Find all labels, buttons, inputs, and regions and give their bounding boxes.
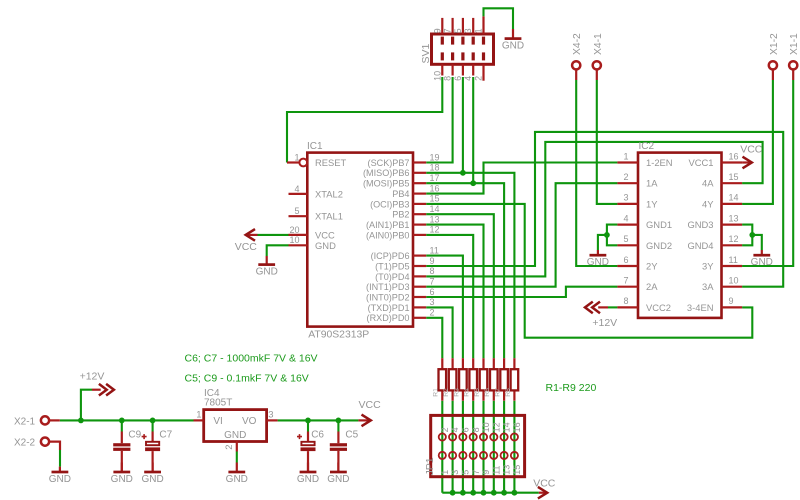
junction bus col 7 <box>501 490 507 496</box>
svg-text:16: 16 <box>729 151 739 161</box>
junction bus col 4 <box>470 490 476 496</box>
terminal X4-2 <box>572 33 583 80</box>
svg-text:6: 6 <box>461 427 471 432</box>
supply VCC at IC2 VCC1 <box>742 161 750 163</box>
svg-text:GND: GND <box>111 474 133 485</box>
svg-text:(AIN1)PB1: (AIN1)PB1 <box>366 220 409 230</box>
svg-text:7805T: 7805T <box>204 398 232 409</box>
svg-text:(INT1)PD3: (INT1)PD3 <box>366 282 409 292</box>
wire IC2 2Y to X4-2 <box>576 80 617 266</box>
junction IC2 GND1/2 <box>604 232 610 238</box>
ground at X2-2 <box>59 467 61 472</box>
svg-text:4Y: 4Y <box>702 198 714 209</box>
svg-text:VCC: VCC <box>533 477 556 489</box>
svg-text:1: 1 <box>294 152 299 162</box>
wire X2-2 to ground <box>59 450 61 467</box>
svg-text:PB2: PB2 <box>392 210 409 220</box>
wire SV1 pin1 to GND <box>484 8 514 29</box>
svg-text:10: 10 <box>729 276 739 286</box>
svg-text:3A: 3A <box>702 281 714 292</box>
svg-text:1A: 1A <box>646 178 658 189</box>
junction +12V tap <box>78 418 84 424</box>
svg-text:13: 13 <box>502 465 512 475</box>
svg-text:R4: R4 <box>464 388 471 397</box>
svg-text:11: 11 <box>430 245 439 255</box>
wire IC2 right GND branch <box>752 235 762 250</box>
wire IC2 3Y to X1-1 <box>742 80 793 266</box>
svg-text:R3: R3 <box>453 388 460 397</box>
svg-text:14: 14 <box>430 204 440 214</box>
ground at SV1 <box>512 29 514 39</box>
svg-text:3: 3 <box>623 193 628 203</box>
wire SV1 pin6 to MISO line <box>462 77 464 173</box>
svg-text:VCC: VCC <box>235 241 258 253</box>
resistor R2 <box>443 358 456 401</box>
svg-text:GND1: GND1 <box>646 219 672 230</box>
svg-text:4: 4 <box>463 76 473 81</box>
wire IC2 4Y to X1-2 <box>742 80 773 204</box>
svg-text:2: 2 <box>224 444 235 449</box>
svg-text:C6; C7 - 1000mkF 7V & 16V: C6; C7 - 1000mkF 7V & 16V <box>185 352 318 364</box>
svg-text:3: 3 <box>268 410 273 421</box>
svg-text:15: 15 <box>430 194 440 204</box>
wire resistor outputs through JP1 to VCC bus <box>441 401 443 493</box>
svg-text:7: 7 <box>443 28 453 33</box>
svg-text:GND2: GND2 <box>646 240 672 251</box>
svg-text:9: 9 <box>729 296 734 306</box>
svg-text:10: 10 <box>432 71 442 81</box>
svg-text:4: 4 <box>294 184 299 194</box>
svg-text:18: 18 <box>430 163 440 173</box>
wire PD3 INT1 to IC2 1A <box>426 183 617 287</box>
connector SV1 ISP header <box>420 16 494 81</box>
svg-text:13: 13 <box>430 214 440 224</box>
svg-text:R2: R2 <box>443 388 450 397</box>
junction bus col 3 <box>460 490 466 496</box>
wire SV1 pin4 to MOSI line <box>472 77 474 183</box>
junction MOSI/SV1-4 <box>470 180 476 186</box>
wire PB4 to IC2 1-2EN <box>426 163 617 194</box>
svg-text:4A: 4A <box>702 178 714 189</box>
svg-text:2Y: 2Y <box>646 261 658 272</box>
svg-text:IC1: IC1 <box>307 141 323 152</box>
wire C5 drop <box>337 420 339 431</box>
svg-text:VCC2: VCC2 <box>646 302 671 313</box>
svg-text:7: 7 <box>623 276 628 286</box>
svg-text:6: 6 <box>430 287 435 297</box>
svg-text:7: 7 <box>471 470 481 475</box>
svg-text:3: 3 <box>463 28 473 33</box>
wire PB2 to resistor R6 column <box>426 214 494 358</box>
svg-text:R5: R5 <box>474 388 481 397</box>
svg-text:19: 19 <box>430 152 440 162</box>
ground at IC2 left <box>597 250 599 255</box>
svg-text:4: 4 <box>450 427 460 432</box>
svg-text:9: 9 <box>432 28 442 33</box>
supply +12V at IC2 VCC2 <box>598 306 608 308</box>
svg-text:GND: GND <box>297 474 319 485</box>
junction C6 <box>305 418 311 424</box>
svg-text:2: 2 <box>430 308 435 318</box>
capacitor C7 <box>141 430 172 485</box>
wire MISO PB6 line to resistor R8 column <box>426 173 514 358</box>
svg-text:R6: R6 <box>484 388 491 397</box>
svg-text:+12V: +12V <box>592 317 617 329</box>
svg-text:3: 3 <box>430 297 435 307</box>
svg-text:3: 3 <box>450 470 460 475</box>
svg-text:(OCI)PB3: (OCI)PB3 <box>370 199 409 209</box>
svg-text:8: 8 <box>471 427 481 432</box>
wire SV1 pin8 to PB7 SCK <box>426 77 452 163</box>
resistor R6 <box>484 358 497 401</box>
resistor R7 <box>495 358 508 401</box>
svg-text:12: 12 <box>430 225 440 235</box>
wire IC2 VCC2 to +12V <box>608 306 617 308</box>
wire PB3 OCI to IC2 3-4EN <box>426 204 752 338</box>
svg-text:14: 14 <box>729 193 739 203</box>
wire +12V branch <box>81 390 92 421</box>
wire MOSI PB5 line to resistor R7 column <box>426 183 504 358</box>
svg-text:GND: GND <box>502 41 524 52</box>
junction C5 <box>336 418 342 424</box>
wire PB1 to resistor R5 column <box>426 225 483 359</box>
svg-text:2A: 2A <box>646 281 658 292</box>
wire IC4 VO rail to VCC <box>278 419 359 421</box>
svg-text:XTAL2: XTAL2 <box>315 188 343 199</box>
svg-text:GND: GND <box>315 240 336 251</box>
regulator IC4 7805T <box>194 388 278 452</box>
svg-text:VO: VO <box>242 416 257 427</box>
svg-text:VI: VI <box>213 416 222 427</box>
svg-text:SV1: SV1 <box>420 43 432 63</box>
svg-text:11: 11 <box>491 465 501 474</box>
resistor R8 <box>505 358 518 401</box>
svg-text:3Y: 3Y <box>702 261 714 272</box>
svg-text:GND: GND <box>141 474 163 485</box>
svg-text:X4-1: X4-1 <box>593 33 604 55</box>
wire PD4 T0 to IC2 4A <box>426 142 762 277</box>
capacitor C6 <box>297 430 325 485</box>
svg-text:6: 6 <box>623 255 628 265</box>
supply VCC at IC1 pin20 <box>248 234 258 236</box>
svg-text:GND: GND <box>226 474 248 485</box>
junction bus col 8 <box>512 490 518 496</box>
svg-text:XTAL1: XTAL1 <box>315 211 343 222</box>
svg-text:9: 9 <box>430 256 435 266</box>
resistor R5 <box>474 358 487 401</box>
svg-text:5: 5 <box>453 28 463 33</box>
svg-text:(INT0)PD2: (INT0)PD2 <box>366 292 409 302</box>
svg-text:2: 2 <box>440 427 450 432</box>
svg-text:GND4: GND4 <box>687 240 713 251</box>
svg-text:7: 7 <box>430 277 435 287</box>
svg-text:5: 5 <box>294 206 299 216</box>
IC IC1 AT90S2313P microcontroller <box>287 141 440 341</box>
svg-text:VCC: VCC <box>359 399 382 411</box>
junction IC2 GND3/4 <box>749 232 755 238</box>
svg-text:GND3: GND3 <box>687 219 713 230</box>
svg-text:15: 15 <box>512 465 522 475</box>
terminal X2-2 <box>14 438 60 451</box>
capacitor C5 <box>327 430 358 485</box>
junction C7 <box>150 418 156 424</box>
svg-text:(MOSI)PB5: (MOSI)PB5 <box>363 179 410 189</box>
svg-text:8: 8 <box>443 76 453 81</box>
svg-text:9: 9 <box>481 470 491 475</box>
svg-text:VCC: VCC <box>315 229 335 240</box>
svg-text:13: 13 <box>729 213 739 223</box>
junction bus col 6 <box>491 490 497 496</box>
wire C9 drop <box>121 420 123 431</box>
svg-text:(RXD)PD0: (RXD)PD0 <box>367 313 410 323</box>
capacitor C9 <box>111 430 142 485</box>
svg-text:RESET: RESET <box>315 157 347 168</box>
supply VCC at 7805 output <box>358 419 368 421</box>
svg-text:4: 4 <box>623 213 628 223</box>
junction MISO/SV1-6 <box>460 170 466 176</box>
svg-text:+12V: +12V <box>80 371 105 383</box>
wire IC2 left GND branch <box>598 235 607 250</box>
svg-text:C9: C9 <box>128 430 141 441</box>
wire PD5 T1 to IC2 3A <box>426 132 783 287</box>
svg-text:3-4EN: 3-4EN <box>687 302 714 313</box>
supply VCC at JP1 bus <box>539 492 545 494</box>
svg-text:C7: C7 <box>159 430 172 441</box>
svg-text:5: 5 <box>461 470 471 475</box>
svg-text:2: 2 <box>474 76 484 81</box>
wire IC1 GND pin10 down <box>267 245 289 256</box>
wire X2-1 input rail to IC4 VI <box>60 419 194 421</box>
svg-text:X1-2: X1-2 <box>769 33 780 55</box>
wire PD0 RXD to resistor R1 column <box>426 318 442 358</box>
svg-text:R7: R7 <box>495 388 502 397</box>
svg-text:12: 12 <box>729 234 739 244</box>
svg-text:C6: C6 <box>311 430 324 441</box>
svg-text:8: 8 <box>430 266 435 276</box>
svg-text:(MISO)PB6: (MISO)PB6 <box>363 168 410 178</box>
svg-text:PB4: PB4 <box>392 189 409 199</box>
svg-text:(T1)PD5: (T1)PD5 <box>375 261 409 271</box>
svg-text:1: 1 <box>474 28 484 33</box>
terminal X1-1 <box>789 33 800 80</box>
svg-text:12: 12 <box>491 422 501 432</box>
terminal X4-1 <box>593 33 604 80</box>
svg-text:10: 10 <box>289 235 299 245</box>
svg-text:R8: R8 <box>505 388 512 397</box>
wire JP1 VCC bus <box>442 492 539 494</box>
wire IC2 GND1/GND2 tie <box>607 225 618 246</box>
wire PD6 ICP to resistor R3 column <box>426 256 463 359</box>
svg-text:1Y: 1Y <box>646 198 658 209</box>
svg-text:C5; C9 - 0.1mkF 7V & 16V: C5; C9 - 0.1mkF 7V & 16V <box>185 372 309 384</box>
wire IC2 GND3/GND4 tie <box>742 225 752 246</box>
svg-text:1-2EN: 1-2EN <box>646 157 673 168</box>
svg-text:X2-1: X2-1 <box>14 416 36 427</box>
IC IC2 buffer 74xx244 <box>617 141 742 318</box>
resistor R3 <box>453 358 466 401</box>
svg-text:IC2: IC2 <box>639 141 655 152</box>
svg-text:X4-2: X4-2 <box>572 33 583 55</box>
resistor R1 <box>433 358 446 401</box>
junction C9 <box>119 418 125 424</box>
svg-text:10: 10 <box>481 422 491 432</box>
wire IC1 VCC pin20 to VCC symbol <box>258 234 289 236</box>
svg-text:GND: GND <box>224 430 246 441</box>
wire IC2 1Y to X4-1 <box>597 80 618 204</box>
svg-text:(TXD)PD1: (TXD)PD1 <box>368 303 410 313</box>
svg-text:15: 15 <box>729 172 739 182</box>
supply +12V (input) <box>92 389 101 391</box>
svg-text:GND: GND <box>256 267 278 278</box>
ground at IC4 <box>236 463 238 473</box>
svg-text:11: 11 <box>729 255 738 265</box>
svg-text:R1: R1 <box>433 388 440 397</box>
svg-text:16: 16 <box>512 422 522 432</box>
ground at IC2 right <box>761 250 763 255</box>
wire PD2 INT0 to IC2 2A <box>426 287 617 297</box>
svg-text:20: 20 <box>289 225 299 235</box>
wire IC4 GND pin2 <box>236 452 238 463</box>
svg-text:VCC: VCC <box>740 143 763 155</box>
svg-text:(SCK)PB7: (SCK)PB7 <box>368 158 410 168</box>
svg-text:5: 5 <box>623 234 628 244</box>
svg-text:1: 1 <box>440 470 450 475</box>
svg-text:1: 1 <box>196 410 201 421</box>
wire C6 drop <box>307 420 309 431</box>
svg-text:JP1: JP1 <box>424 457 436 475</box>
wire C7 drop <box>152 420 154 431</box>
junction bus col 5 <box>481 490 487 496</box>
svg-text:C5: C5 <box>345 430 358 441</box>
junction bus col 2 <box>450 490 456 496</box>
resistor R4 <box>464 358 477 401</box>
svg-text:17: 17 <box>430 173 440 183</box>
terminal X2-1 <box>14 416 60 427</box>
svg-text:X2-2: X2-2 <box>14 438 36 449</box>
svg-text:14: 14 <box>502 422 512 432</box>
connector JP1 output header <box>424 415 524 476</box>
svg-text:16: 16 <box>430 183 440 193</box>
svg-text:VCC1: VCC1 <box>688 157 713 168</box>
svg-text:2: 2 <box>623 172 628 182</box>
svg-text:R1-R9 220: R1-R9 220 <box>546 382 597 394</box>
svg-text:(T0)PD4: (T0)PD4 <box>375 272 409 282</box>
svg-text:X1-1: X1-1 <box>789 33 800 55</box>
svg-text:(AIN0)PB0: (AIN0)PB0 <box>366 230 409 240</box>
svg-text:6: 6 <box>453 76 463 81</box>
svg-text:GND: GND <box>327 474 349 485</box>
svg-text:GND: GND <box>49 474 71 485</box>
ground at IC1 pin10 <box>266 256 268 265</box>
svg-text:AT90S2313P: AT90S2313P <box>308 330 369 341</box>
svg-text:1: 1 <box>623 151 628 161</box>
svg-text:8: 8 <box>623 296 628 306</box>
svg-text:(ICP)PD6: (ICP)PD6 <box>371 251 410 261</box>
wire SV1 pin10 to IC1 RESET (net) <box>287 77 442 163</box>
terminal X1-2 <box>769 33 780 80</box>
wire PB0 to resistor R4 column <box>426 235 473 358</box>
wire PD1 TXD to resistor R2 column <box>426 307 452 358</box>
